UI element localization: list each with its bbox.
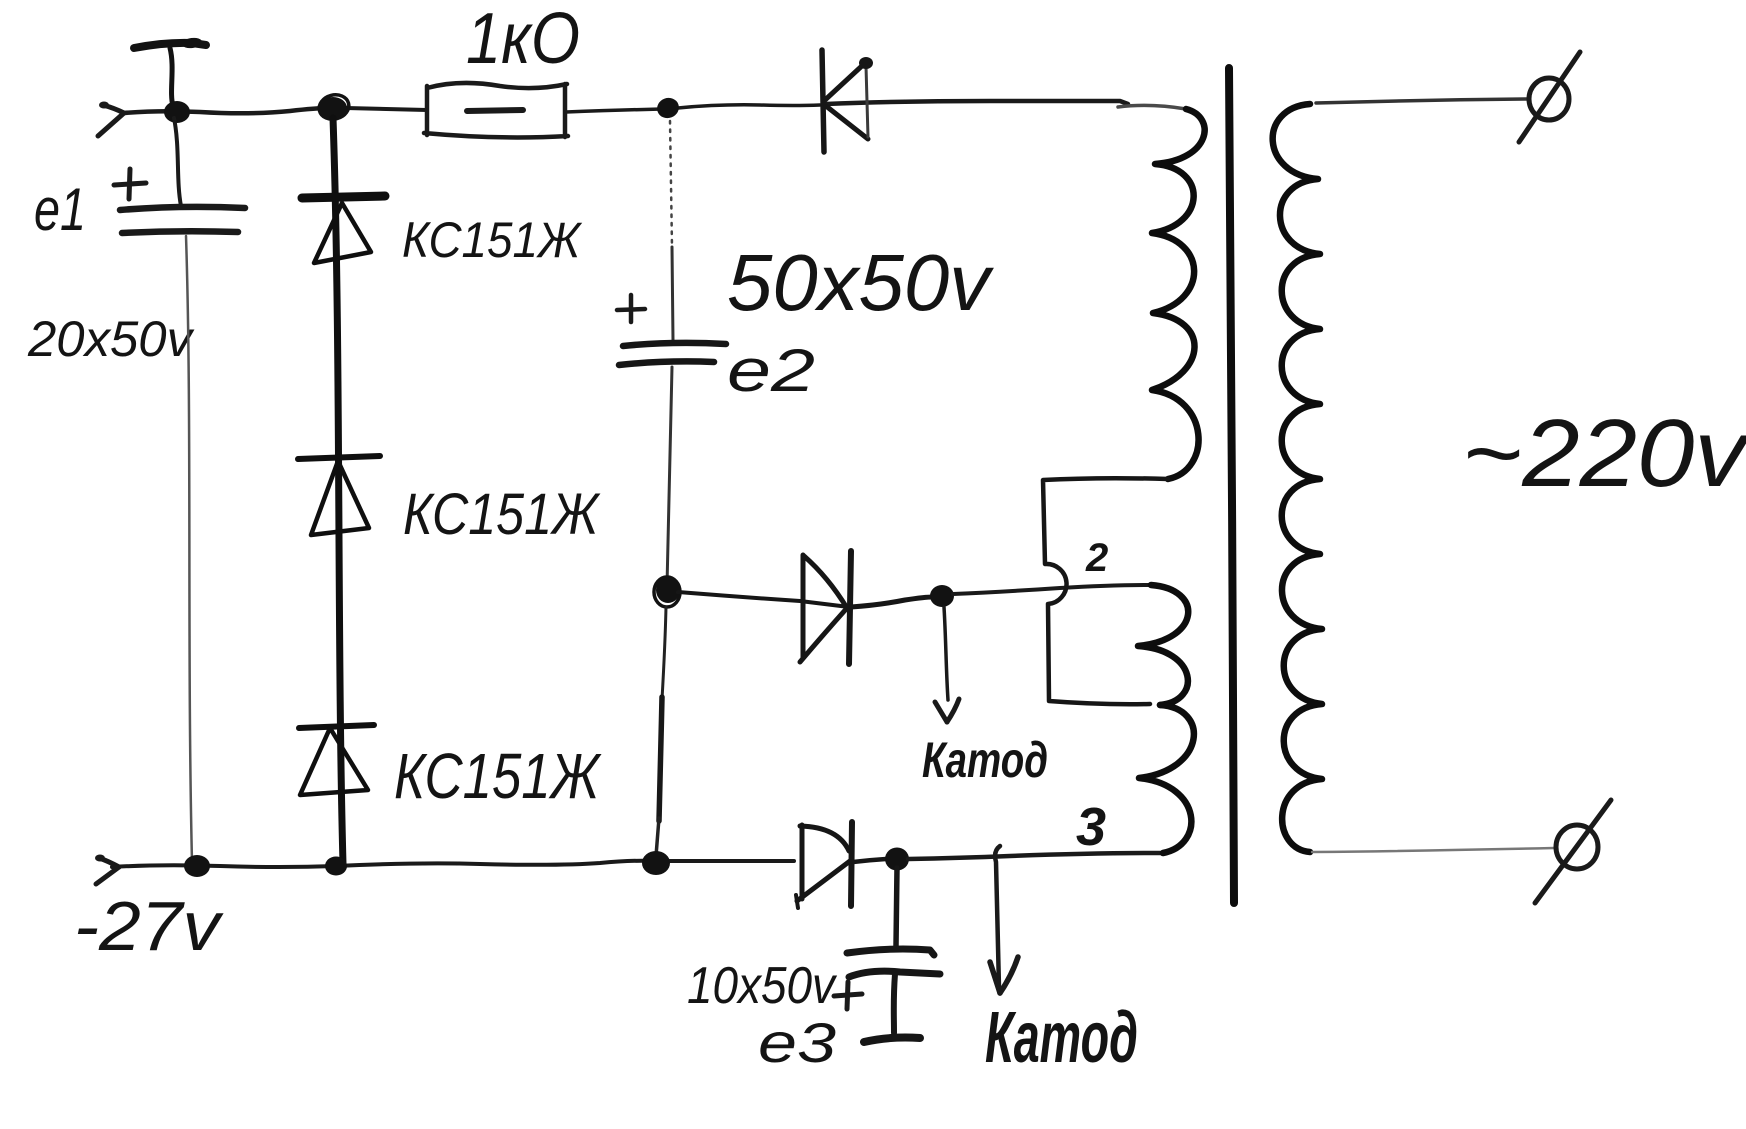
zener diode VD1 KC151Zh (302, 196, 385, 263)
node E (C2 branch bottom) (642, 851, 670, 875)
transformer secondary winding (1273, 104, 1322, 852)
wire node F to winding tap 2 (953, 585, 1151, 594)
zener diode VD3 KC151Zh (299, 725, 374, 795)
C1 plus sign (114, 169, 146, 199)
arrow to cathode (middle) (935, 607, 959, 722)
svg-text:Катод: Катод (922, 732, 1048, 788)
terminal top (circle with slash) (1519, 52, 1580, 142)
svg-text:1кО: 1кО (466, 0, 580, 79)
svg-text:е3: е3 (758, 1011, 836, 1074)
wire node2 to resistor (346, 108, 427, 110)
node H (zener chain bottom) (325, 857, 347, 876)
wire node D to node E (bottom) (662, 607, 666, 700)
resistor R1 1kO box (424, 83, 568, 138)
node B (junction 2, blob) (316, 92, 351, 123)
svg-text:КС151Ж: КС151Ж (403, 482, 601, 547)
svg-text:3: 3 (1076, 797, 1106, 857)
svg-text:Катод: Катод (985, 998, 1138, 1078)
wire node3 to diode D1 (678, 105, 820, 108)
node G (bottom rail left) (184, 855, 210, 877)
bottom rail (112, 861, 655, 867)
input arrow bottom-left (95, 855, 119, 885)
wire secondary bottom to terminal (1312, 848, 1554, 852)
transformer winding W3 (tap 3 section) (1139, 705, 1194, 853)
capacitor C1 (120, 118, 245, 233)
wire node3 to C2 (dotted pencil) (670, 121, 672, 247)
wire resistor to node3 (566, 109, 662, 112)
diode D3 (bottom, pointing right) (796, 822, 886, 908)
node C (junction 3) (654, 95, 682, 121)
svg-text:20х50v: 20х50v (27, 311, 195, 367)
C3 plus sign (834, 982, 862, 1009)
wire C1 to bottom rail (pencil) (186, 236, 192, 862)
svg-text:50х50v: 50х50v (727, 238, 994, 327)
wire top rail left (124, 108, 332, 113)
input arrow top-left (98, 102, 124, 137)
diode D1 (top, pointing left) (822, 50, 873, 152)
svg-text:КС151Ж: КС151Ж (394, 740, 602, 812)
node I (after D3) (885, 848, 909, 871)
transformer winding W1 (primary top) (1118, 105, 1186, 109)
capacitor C3 (847, 868, 940, 1042)
svg-text:е2: е2 (727, 337, 815, 404)
node A (junction 1) (164, 101, 190, 123)
C2 plus sign (617, 295, 645, 322)
wire D1 to transformer winding (826, 101, 1128, 104)
node F (after D2) (930, 585, 954, 607)
wire C2 to node D (667, 367, 672, 586)
svg-text:КС151Ж: КС151Ж (402, 212, 583, 268)
winding W1 bottom bracket (1043, 478, 1168, 704)
svg-text:е1: е1 (34, 176, 86, 243)
terminal bottom (circle with slash) (1535, 800, 1611, 903)
antenna T symbol top-left (134, 37, 206, 106)
wire node I to winding tap 3 (908, 853, 1160, 859)
arrow to cathode (bottom) (990, 846, 1018, 993)
wire node E to diode D3 (668, 859, 794, 863)
svg-text:-27v: -27v (74, 887, 224, 965)
zener diode VD2 KC151Zh (298, 456, 380, 535)
wire secondary top to terminal (1316, 99, 1527, 103)
svg-text:~220v: ~220v (1462, 400, 1746, 507)
transformer winding W2 (tap 2 section) (1138, 585, 1188, 705)
transformer core (1229, 68, 1234, 903)
svg-text:2: 2 (1085, 536, 1108, 580)
diode D2 (middle, pointing right) (678, 551, 933, 664)
node D (junction mid) (654, 577, 680, 607)
svg-text:10х50v: 10х50v (687, 957, 838, 1015)
capacitor C2 (619, 343, 726, 365)
zener chain wire (333, 118, 343, 864)
